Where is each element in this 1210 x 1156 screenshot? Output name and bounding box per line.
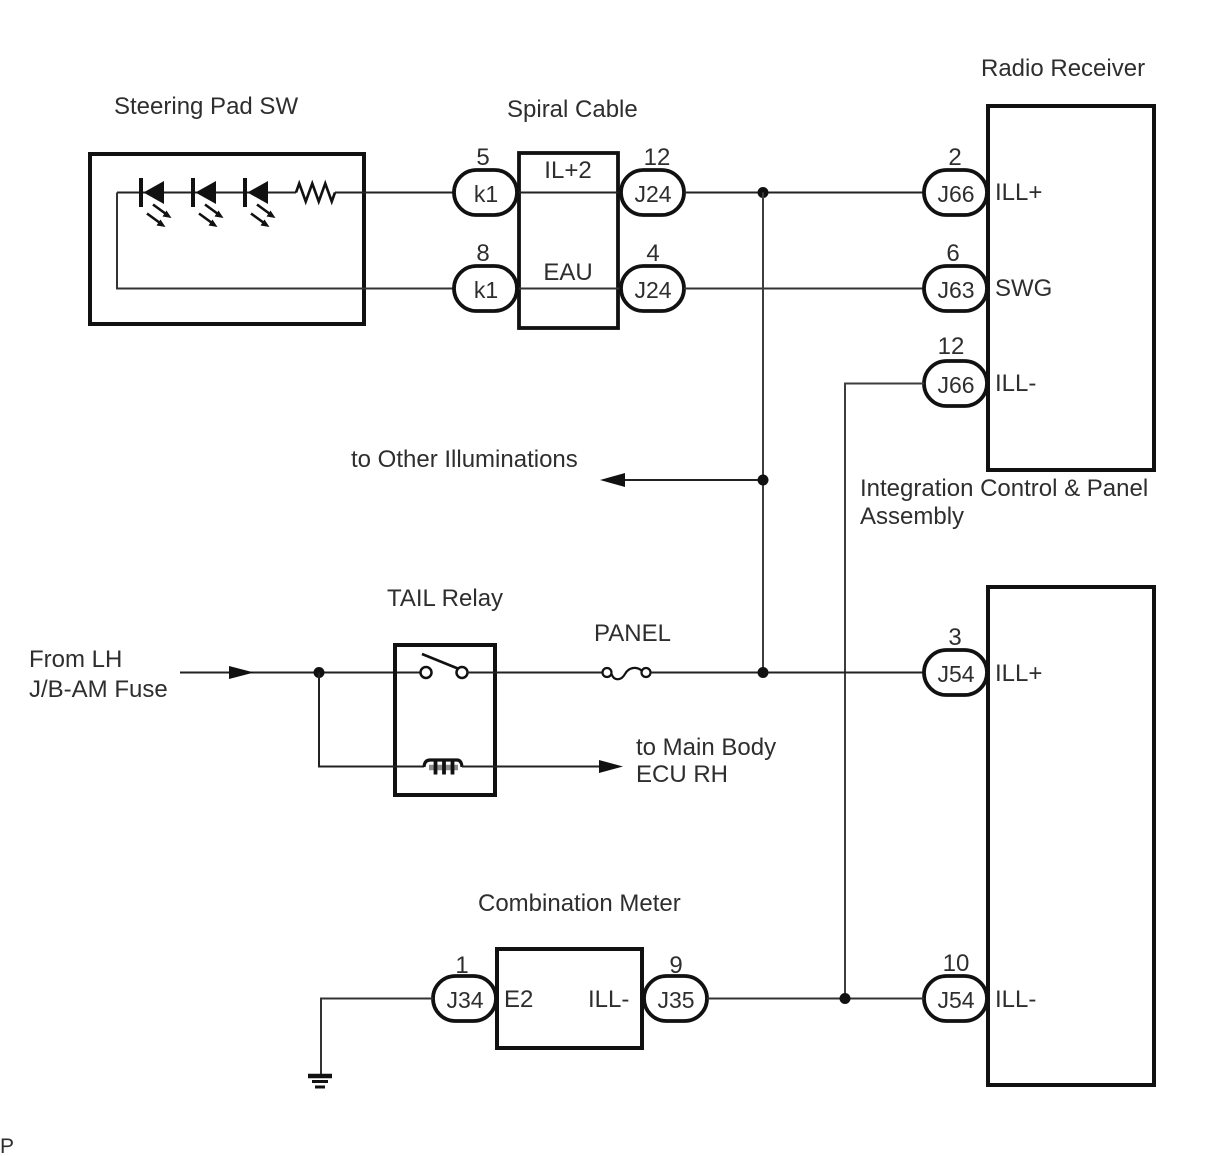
svg-text:EAU: EAU [543,259,592,286]
svg-text:4: 4 [646,240,659,267]
wire: LED string top lead [117,192,296,194]
wire: fuse to J54-3 [651,672,925,674]
svg-text:IL+2: IL+2 [544,157,591,184]
svg-text:SWG: SWG [995,275,1052,302]
LED D3 [245,178,276,227]
wire: IL+2 row through spiral cable [517,192,624,194]
svg-text:8: 8 [476,240,489,267]
svg-text:J24: J24 [634,277,671,303]
svg-text:3: 3 [948,624,961,651]
svg-text:TAIL Relay: TAIL Relay [387,585,503,612]
svg-text:5: 5 [476,144,489,171]
svg-text:PANEL: PANEL [594,620,671,647]
wire: J24-4 to J63-6 [684,288,924,290]
svg-text:Combination Meter: Combination Meter [478,890,681,917]
wire: vertical ILL+ distribution [762,193,764,673]
radio receiver box [988,106,1154,470]
connector J63 pin 6 [924,240,987,311]
connector k1 pin 5 [454,144,517,215]
label: Integration Control & Panel Assembly [860,475,1148,530]
svg-text:ILL-: ILL- [588,986,629,1013]
svg-text:12: 12 [644,144,671,171]
arrow: to other illuminations [600,473,625,487]
svg-text:E2: E2 [504,986,533,1013]
svg-text:k1: k1 [474,277,498,303]
svg-text:Assembly: Assembly [860,503,964,530]
svg-text:J54: J54 [937,661,974,687]
integration control box [988,587,1154,1085]
connector k1 pin 8 [454,240,517,311]
steering pad switch box [90,154,364,324]
wire: EAU row through spiral cable [517,288,624,290]
svg-text:6: 6 [946,240,959,267]
wire: J24-12 to J66-2 [684,192,924,194]
arrow: to main body ECU [599,760,623,773]
svg-text:9: 9 [669,952,682,979]
svg-text:Radio Receiver: Radio Receiver [981,55,1145,82]
connector J66 pin 12 [924,333,987,406]
svg-text:J66: J66 [937,181,974,207]
label: From LH J/B-AM Fuse [29,646,168,703]
svg-text:2: 2 [948,144,961,171]
connector J54 pin 10 [924,950,987,1021]
wire: resistor to connector k1 pin 5 [335,192,454,194]
svg-text:ILL+: ILL+ [995,179,1042,206]
svg-text:to Main Body: to Main Body [636,734,776,761]
combination meter box [497,949,642,1048]
LED D2 [193,178,224,227]
svg-text:P: P [0,1135,14,1156]
svg-text:J/B-AM Fuse: J/B-AM Fuse [29,676,168,703]
relay switch [421,654,468,678]
svg-text:ILL-: ILL- [995,986,1036,1013]
wire: branch to other illuminations [624,479,763,481]
svg-text:J24: J24 [634,181,671,207]
connector J35 pin 9 [644,952,707,1021]
svg-text:1: 1 [455,952,468,979]
connector J66 pin 2 [924,144,987,215]
svg-text:ILL-: ILL- [995,370,1036,397]
svg-text:Steering Pad SW: Steering Pad SW [114,93,298,120]
junction: ILL- return tap [840,993,851,1004]
svg-text:10: 10 [943,950,970,977]
svg-text:Integration Control & Panel: Integration Control & Panel [860,475,1148,502]
svg-text:ECU RH: ECU RH [636,761,728,788]
resistor [296,184,335,202]
svg-text:J35: J35 [657,987,694,1013]
svg-text:J34: J34 [446,987,483,1013]
junction: relay coil tap [314,667,325,678]
wire: coil branch [319,673,424,767]
ground [308,1076,332,1087]
junction: ILL+ tap [758,187,769,198]
svg-text:From LH: From LH [29,646,122,673]
wire: feed from J/B [180,672,421,674]
svg-text:J54: J54 [937,987,974,1013]
wire: LED string return (left vertical and bottom) [117,193,454,289]
relay box [395,645,495,795]
junction: panel wire tap [758,667,769,678]
connector J24 pin 12 [621,144,684,215]
label: to Main Body ECU RH [636,734,776,788]
svg-text:J66: J66 [937,372,974,398]
wire: J66-12 ILL- down to meter return [845,384,924,999]
wire: J35 to J54-10 [707,998,924,1000]
svg-text:ILL+: ILL+ [995,660,1042,687]
spiral cable box [519,153,618,328]
svg-text:k1: k1 [474,181,498,207]
connector J24 pin 4 [621,240,684,311]
svg-text:to Other Illuminations: to Other Illuminations [351,446,578,473]
wire: coil to main body ECU [462,766,601,768]
svg-text:J63: J63 [937,277,974,303]
connector J54 pin 3 [924,624,987,695]
arrow: feed direction [229,666,254,679]
connector J34 pin 1 [433,952,496,1021]
relay coil [424,760,462,775]
fuse PANEL [603,668,651,679]
junction: other illuminations tap [758,475,769,486]
wire: switch to fuse [467,672,602,674]
svg-text:Spiral Cable: Spiral Cable [507,96,638,123]
LED D1 [141,178,172,227]
svg-text:12: 12 [938,333,965,360]
wire: J34 to ground [321,999,433,1075]
